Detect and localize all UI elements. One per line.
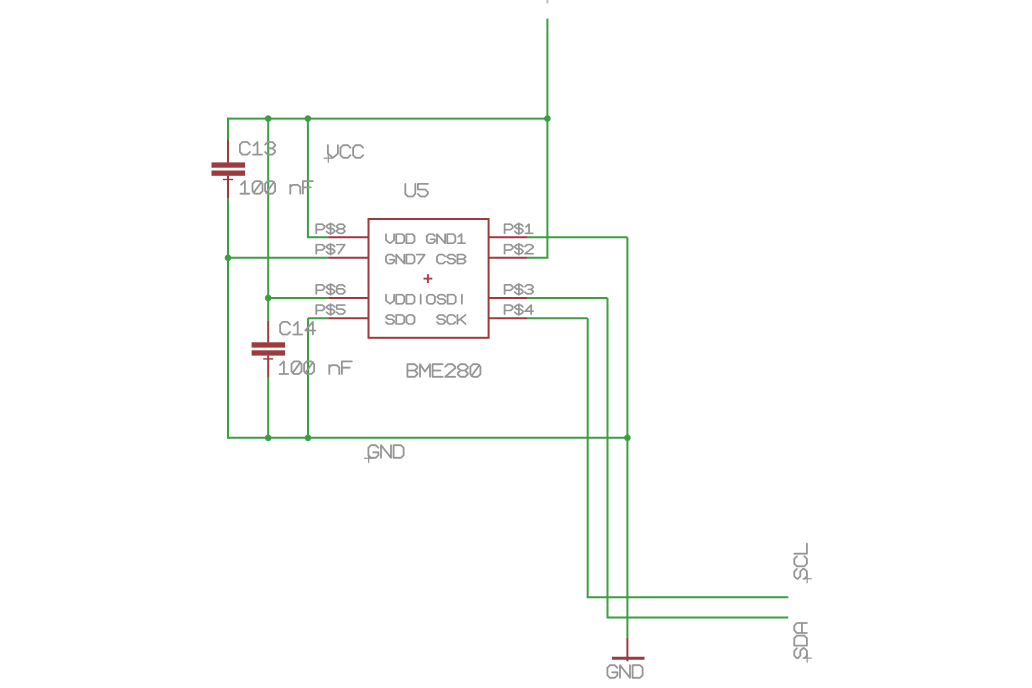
pin P$6 stub: [328, 297, 368, 299]
wire right vertical from P$1 through GND rail to ground symbol: [626, 237, 628, 638]
label U5: [405, 184, 428, 197]
wire VCC top rail: [227, 118, 548, 120]
ground symbol: [612, 638, 645, 662]
label C14 value 100 nF: [280, 361, 352, 374]
pin label P$3: [505, 284, 534, 295]
label BME280: [407, 364, 480, 377]
wire P$8 horizontal: [307, 236, 328, 238]
wire left vertical above C13: [227, 118, 229, 140]
label C14: [280, 322, 315, 335]
capacitor C13: [212, 139, 246, 198]
net label SCL: [794, 544, 811, 584]
wire P$6 horizontal: [268, 297, 328, 299]
pin label P$4: [505, 304, 534, 315]
wire SDA horizontal: [607, 617, 789, 619]
pin name VDD GND1: [386, 234, 465, 243]
pin name GND7 CSB: [386, 255, 466, 264]
junction top rail at VCC feed: [544, 115, 551, 122]
pin P$8 stub: [328, 236, 368, 238]
pin P$2 stub: [489, 257, 527, 259]
junction P$6 at C14 vertical: [265, 295, 272, 302]
pin P$5 stub: [328, 317, 368, 319]
pin label P$8: [316, 223, 345, 234]
label C13: [240, 142, 275, 155]
pin P$1 stub: [489, 236, 527, 238]
capacitor C14: [252, 321, 286, 378]
pin name SDO SCK: [386, 315, 466, 324]
junction GND rail at C14 vertical: [265, 435, 272, 442]
pin label P$1: [505, 223, 533, 234]
net label SDA: [794, 623, 811, 663]
pin P$3 stub: [489, 297, 527, 299]
pin name SDI: [437, 295, 461, 304]
IC origin cross: [424, 278, 433, 280]
net label GND: [364, 445, 404, 463]
wire C14 branch vertical upper: [267, 118, 269, 321]
wire P$1 horizontal: [527, 236, 627, 238]
wire SCL horizontal: [587, 596, 789, 598]
ground symbol label GND: [607, 665, 642, 678]
wire P$7 horizontal: [228, 257, 328, 259]
wire SCK vertical to SCL row: [587, 318, 589, 597]
wire P$3 horizontal: [527, 297, 608, 299]
junction top rail at C14 branch: [265, 115, 272, 122]
junction P$7 at left vertical: [225, 254, 232, 261]
wire VCC feed from top: [546, 19, 548, 258]
wire SDI vertical to SDA row: [607, 298, 609, 618]
pin label P$5: [316, 304, 345, 315]
pin name VDDIO: [386, 295, 435, 304]
pin label P$2: [505, 244, 534, 255]
net label VCC: [324, 145, 363, 163]
junction GND rail at right vertical: [624, 435, 631, 442]
pin label P$6: [316, 284, 345, 295]
pin label P$7: [316, 244, 345, 255]
pin P$7 stub: [328, 257, 368, 259]
wire P$8 branch vertical: [307, 118, 309, 238]
wire left vertical below C13 down to GND rail: [227, 198, 229, 439]
wire C14 branch vertical lower: [267, 378, 269, 439]
wire P$5 branch vertical: [307, 318, 309, 439]
net stub tick at top edge: [546, 0, 548, 4]
wire P$5 horizontal: [308, 317, 328, 319]
IC U5 BME280 body: [369, 219, 489, 338]
pin P$4 stub: [489, 317, 527, 319]
junction GND rail at P$5 vertical: [305, 435, 312, 442]
wire GND bottom rail: [227, 437, 627, 439]
wire P$4 horizontal: [527, 317, 588, 319]
junction top rail at P$8 branch: [305, 115, 312, 122]
label C13 value 100 nF: [241, 181, 313, 194]
wire P$2 horizontal: [527, 257, 548, 259]
